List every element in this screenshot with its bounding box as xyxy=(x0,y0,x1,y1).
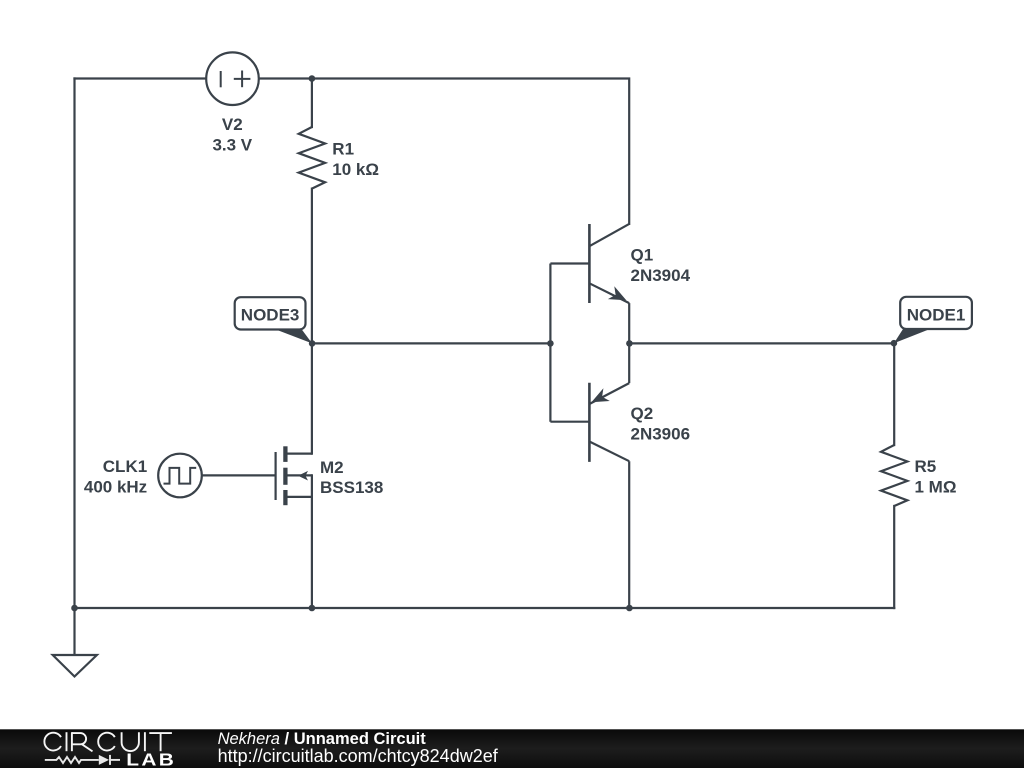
wire M2 source down to bottom rail xyxy=(311,475,313,608)
NODE1 label xyxy=(894,297,972,343)
wire R1 bottom lead to M2 drain xyxy=(311,189,313,454)
svg-text:Q1: Q1 xyxy=(631,246,654,265)
svg-text:1 MΩ: 1 MΩ xyxy=(915,478,957,497)
svg-text:400 kHz: 400 kHz xyxy=(84,477,147,496)
svg-text:BSS138: BSS138 xyxy=(320,478,383,497)
wire left rail xyxy=(73,79,75,609)
transistor Q2 xyxy=(550,343,690,608)
wire bottom rail xyxy=(75,607,895,609)
node1 junction dot xyxy=(891,340,898,347)
NODE3 label xyxy=(235,297,312,343)
svg-text:LAB: LAB xyxy=(126,751,176,768)
svg-text:R1: R1 xyxy=(332,139,354,158)
wire R5 bottom lead xyxy=(893,506,895,608)
svg-text:2N3904: 2N3904 xyxy=(631,266,691,285)
CircuitLab logo squiggle xyxy=(45,755,120,765)
svg-text:M2: M2 xyxy=(320,458,344,477)
MOSFET M2 xyxy=(276,446,384,505)
svg-text:http://circuitlab.com/chtcy824: http://circuitlab.com/chtcy824dw2ef xyxy=(218,746,499,766)
svg-text:NODE1: NODE1 xyxy=(907,305,966,324)
svg-text:CLK1: CLK1 xyxy=(103,457,147,476)
svg-text:10 kΩ: 10 kΩ xyxy=(332,160,379,179)
junction dot bottom rail ground xyxy=(71,605,78,612)
wire mid rail emitter junction to NODE1 xyxy=(629,342,894,344)
junction dot top rail R1 xyxy=(309,75,316,82)
wire top rail right to Q1 collector xyxy=(259,79,629,224)
wire CLK1 to gate xyxy=(202,474,276,476)
junction dot mid rail right xyxy=(626,340,633,347)
svg-text:3.3 V: 3.3 V xyxy=(212,136,252,155)
svg-text:V2: V2 xyxy=(222,115,243,134)
voltage source V2 xyxy=(206,52,259,154)
junction dot bottom rail Q2 xyxy=(626,605,633,612)
wire mid rail NODE3 to base tie xyxy=(312,342,550,344)
junction dot bottom rail M2 xyxy=(309,605,316,612)
svg-text:R5: R5 xyxy=(915,457,937,476)
svg-text:2N3906: 2N3906 xyxy=(631,425,691,444)
junction dot mid rail left xyxy=(547,340,554,347)
ground xyxy=(53,608,97,677)
transistor Q1 xyxy=(550,224,690,344)
wire R5 top lead xyxy=(893,343,895,445)
wire top rail left xyxy=(75,77,207,79)
node3 junction dot xyxy=(309,340,316,347)
wire R1 top lead xyxy=(311,79,313,128)
svg-text:Q2: Q2 xyxy=(631,404,654,423)
CircuitLab logo CIRCUIT xyxy=(44,732,172,751)
resistor R1 xyxy=(299,127,379,189)
resistor R5 xyxy=(881,445,956,506)
clock source CLK1 xyxy=(84,454,276,498)
svg-text:NODE3: NODE3 xyxy=(241,305,300,324)
